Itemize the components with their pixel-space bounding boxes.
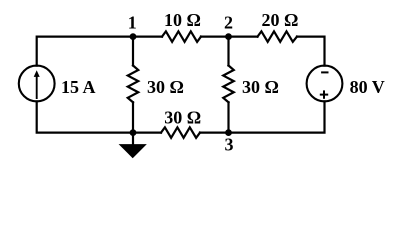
svg-text:80 V: 80 V (350, 77, 385, 97)
svg-text:15 A: 15 A (61, 77, 96, 97)
svg-text:30 Ω: 30 Ω (164, 107, 201, 127)
svg-text:20 Ω: 20 Ω (262, 10, 299, 30)
svg-text:30 Ω: 30 Ω (242, 77, 279, 97)
svg-text:30 Ω: 30 Ω (147, 77, 184, 97)
svg-text:2: 2 (224, 12, 233, 32)
svg-text:1: 1 (128, 12, 137, 32)
svg-text:10 Ω: 10 Ω (164, 10, 201, 30)
svg-text:3: 3 (225, 134, 234, 154)
